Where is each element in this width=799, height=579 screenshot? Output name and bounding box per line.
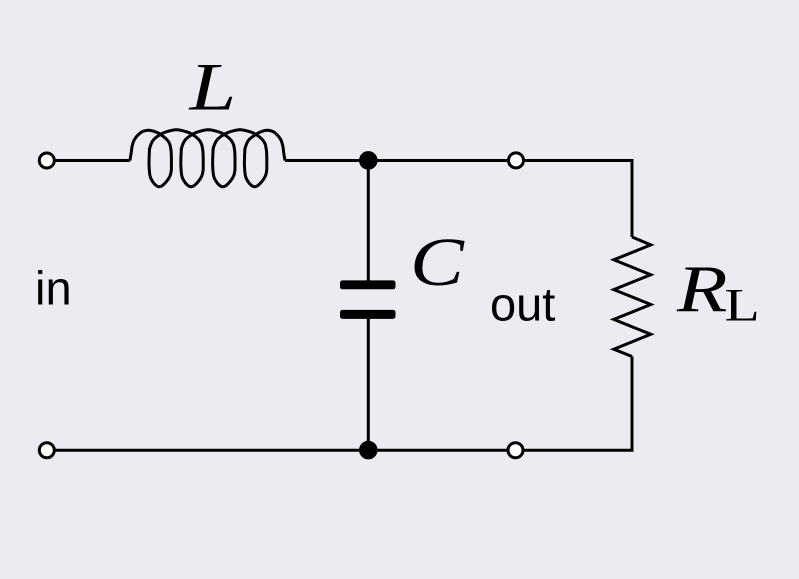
svg-text:C: C (410, 224, 465, 300)
svg-text:out: out (490, 277, 555, 330)
svg-text:in: in (35, 262, 72, 315)
svg-text:R: R (676, 252, 728, 326)
svg-text:L: L (188, 49, 236, 125)
svg-text:L: L (725, 279, 760, 331)
